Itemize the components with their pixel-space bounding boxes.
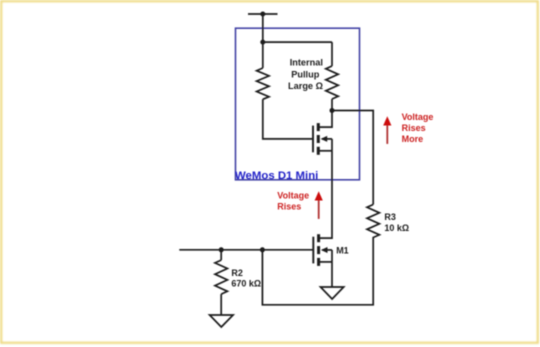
svg-text:R2: R2: [231, 268, 243, 278]
svg-text:Voltage: Voltage: [277, 191, 309, 201]
wire right resistor to node: [331, 99, 333, 111]
wire left resistor top lead: [262, 42, 264, 68]
svg-text:Pullup: Pullup: [291, 69, 319, 79]
svg-text:More: More: [402, 134, 424, 144]
wire R3 bottom to bottom rail: [262, 241, 373, 305]
wire gate rail: [179, 249, 313, 251]
ground M1: [321, 287, 344, 299]
node R2 junction: [219, 247, 224, 252]
wire rail to top node: [262, 14, 264, 42]
resistor R2: [215, 260, 227, 294]
op internal mosfet U1: [313, 123, 332, 155]
svg-text:10 kΩ: 10 kΩ: [384, 223, 409, 233]
wire left resistor to gate: [263, 99, 313, 139]
wire U1 source to M1 drain: [319, 151, 332, 238]
U1 body arrow: [321, 136, 328, 142]
svg-text:670 kΩ: 670 kΩ: [231, 279, 261, 289]
resistor internal pullup right: [326, 66, 338, 99]
node top junction: [260, 40, 265, 45]
svg-text:Voltage: Voltage: [402, 112, 434, 122]
transistor M1: [313, 234, 332, 266]
wire M1 source to ground: [331, 262, 333, 287]
wire drain down: [318, 111, 332, 128]
wire R2 top lead: [220, 250, 222, 260]
WeMos D1 Mini box: [236, 28, 360, 180]
resistor internal pullup left: [257, 68, 269, 99]
junction on rail: [260, 12, 265, 17]
svg-text:Rises: Rises: [277, 202, 301, 212]
red arrow voltage rises more: [386, 125, 388, 144]
wire R2 bottom lead: [220, 294, 222, 315]
wire node to R3: [332, 111, 373, 205]
svg-text:Large Ω: Large Ω: [288, 81, 323, 91]
red arrow voltage rises: [318, 200, 320, 219]
svg-text:Internal: Internal: [290, 58, 323, 68]
M1 body arrow: [321, 247, 328, 253]
ground R2: [210, 315, 234, 327]
svg-text:M1: M1: [336, 245, 349, 255]
svg-text:WeMos D1 Mini: WeMos D1 Mini: [235, 170, 318, 182]
svg-text:R3: R3: [384, 212, 396, 222]
power rail bar: [248, 13, 278, 15]
svg-text:Rises: Rises: [402, 123, 426, 133]
wire top rail: [263, 41, 332, 43]
label Internal Pullup Large: [288, 58, 323, 91]
resistor R3: [367, 205, 379, 242]
wire right resistor top lead: [331, 42, 333, 66]
node drain junction: [330, 108, 335, 113]
node feedback junction: [260, 247, 265, 252]
